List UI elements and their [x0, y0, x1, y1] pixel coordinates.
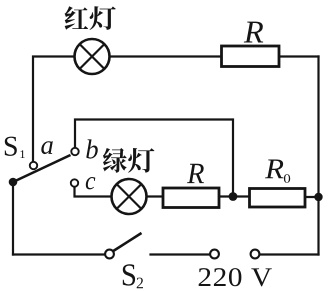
junction node R0 to right rail: [314, 193, 322, 201]
label R0: [265, 160, 290, 183]
label 绿灯: [103, 148, 154, 173]
junction node between R and R0: [229, 192, 238, 201]
contact b: [71, 148, 78, 155]
wire: S2 to left supply terminal: [151, 253, 211, 255]
wire: top-left corner down to contact a: [33, 57, 74, 162]
switch S1 blade from pole toward contact b: [13, 155, 71, 182]
contact c: [71, 179, 78, 186]
label c: [86, 177, 95, 189]
contact a: [30, 162, 37, 169]
resistor R (middle): [163, 188, 219, 208]
resistor R0: [250, 189, 306, 208]
wire: middle resistor R to junction: [219, 195, 233, 197]
label S1: [5, 137, 25, 158]
wire: junction to resistor R0: [233, 195, 250, 197]
switch S2 blade: [113, 233, 142, 252]
label 220 V: [199, 268, 272, 286]
lamp 红灯 (red indicator lamp): [75, 39, 110, 74]
label R (top resistor): [244, 22, 263, 43]
wire: red lamp to resistor R: [111, 55, 222, 57]
wire: bottom rail to S2: [13, 253, 105, 255]
switch S2 hinge contact: [105, 250, 114, 259]
wire: S1 pole down the left rail: [12, 182, 14, 255]
label 红灯: [65, 6, 116, 30]
supply terminal right: [251, 250, 260, 259]
label a: [41, 141, 53, 154]
label b: [86, 139, 98, 158]
wire: resistor R0 to right rail: [305, 196, 319, 198]
wire: node b up, across, down to mid junction: [75, 120, 233, 197]
switch S1 pole junction dot: [9, 178, 18, 187]
resistor R (top): [222, 46, 280, 67]
wire: right rail vertical: [317, 57, 319, 255]
wire: green lamp to middle resistor R: [148, 195, 164, 197]
wire: resistor R to right rail: [279, 55, 319, 57]
lamp 绿灯 (green indicator lamp): [112, 179, 147, 214]
wire: node c down and right to green lamp: [75, 187, 111, 197]
supply terminal left: [210, 250, 219, 259]
label S2: [123, 264, 143, 288]
wire: right supply terminal to right rail: [260, 253, 319, 255]
label R (middle resistor): [187, 164, 204, 183]
